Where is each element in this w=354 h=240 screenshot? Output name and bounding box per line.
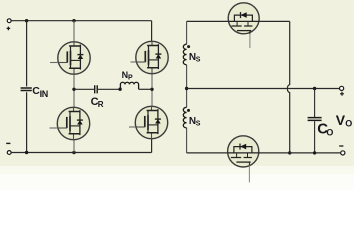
wire CO branch upper xyxy=(314,89,316,118)
svg-text:P: P xyxy=(128,75,133,82)
wire right leg bottom xyxy=(151,139,153,153)
gate lead QR1 xyxy=(249,34,251,48)
output + terminal xyxy=(340,86,344,90)
wire right leg segments xyxy=(151,74,153,107)
output - terminal xyxy=(341,151,345,155)
input + terminal xyxy=(7,19,11,23)
gate lead QR2 xyxy=(248,166,250,183)
node center tap xyxy=(185,87,188,90)
minus label output xyxy=(339,145,343,147)
wire secondary bottom rail right xyxy=(259,152,341,154)
background wash xyxy=(0,0,354,166)
svg-text:IN: IN xyxy=(40,89,48,99)
transistor QR1 top sync rectifier xyxy=(228,3,259,34)
node NS bottom phase dot xyxy=(187,109,190,112)
transistor Q1 top-left xyxy=(58,42,90,74)
gate stub Q2 xyxy=(131,61,137,63)
node NS top phase dot xyxy=(187,45,190,48)
node top rail / left leg xyxy=(72,19,75,22)
gate stub Q1 xyxy=(50,62,58,64)
node right drop / bottom rail xyxy=(288,151,291,154)
wire secondary top rail right xyxy=(259,20,290,22)
wire right drop with crossover hop xyxy=(287,21,289,153)
wire center tap rail xyxy=(187,88,340,90)
node bottom rail / left leg xyxy=(72,151,75,154)
gate stub Q4 xyxy=(129,126,136,128)
capacitor CIN xyxy=(21,88,32,91)
node left leg midpoint xyxy=(72,88,75,91)
wire left leg segments xyxy=(73,21,75,153)
gate stub Q3 xyxy=(50,127,58,129)
wire left rail lower xyxy=(26,92,28,152)
minus label input xyxy=(6,142,10,144)
node right leg midpoint xyxy=(150,88,153,91)
svg-text:S: S xyxy=(196,57,201,64)
node CO top xyxy=(313,87,316,90)
wire CO branch lower xyxy=(314,121,316,153)
wire mid link right xyxy=(139,88,152,90)
wire mid link center xyxy=(98,88,121,90)
wire secondary top rail xyxy=(187,20,229,22)
plus label output xyxy=(340,92,344,96)
wire secondary bottom rail xyxy=(187,152,228,154)
inductor NP primary winding xyxy=(120,82,138,89)
wire bottom rail primary xyxy=(11,152,151,154)
transistor QR2 bottom sync rectifier xyxy=(228,136,259,167)
inductor NS bottom secondary winding xyxy=(183,107,186,128)
node primary dot xyxy=(118,88,121,91)
svg-text:O: O xyxy=(345,119,352,129)
capacitor CR xyxy=(95,85,98,93)
node CO bottom xyxy=(313,151,316,154)
plus label input xyxy=(7,27,11,31)
svg-text:O: O xyxy=(326,128,333,138)
svg-text:R: R xyxy=(98,100,104,109)
transistor Q4 bottom-right xyxy=(135,106,167,138)
capacitor CO xyxy=(308,118,322,121)
wire right leg top xyxy=(151,21,153,42)
svg-text:S: S xyxy=(196,121,201,128)
wire left rail upper xyxy=(26,21,28,87)
node bottom rail / left rail xyxy=(25,151,28,154)
transistor Q3 bottom-left xyxy=(57,107,89,139)
wire mid link left xyxy=(74,88,94,90)
node top rail / left rail xyxy=(25,19,28,22)
inductor NS top secondary winding xyxy=(183,44,186,65)
wire secondary left column xyxy=(186,21,188,153)
transistor Q2 top-right xyxy=(136,41,168,73)
wire top rail xyxy=(11,20,151,22)
input - terminal xyxy=(7,151,11,155)
